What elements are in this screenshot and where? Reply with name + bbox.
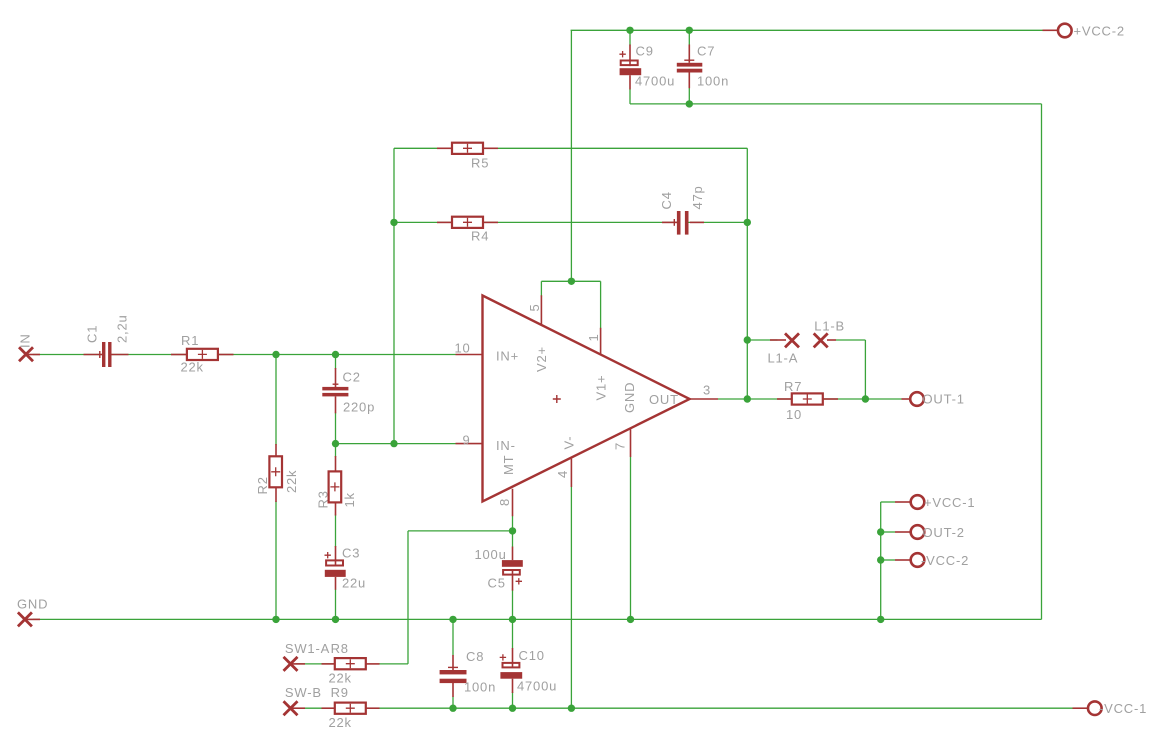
svg-text:C10: C10 bbox=[519, 648, 545, 663]
wire C9 top stub bbox=[629, 30, 631, 46]
svg-text:4700u: 4700u bbox=[635, 74, 675, 89]
junction node R2 gnd bbox=[272, 616, 279, 623]
junction node pin4 bottom bbox=[568, 705, 575, 712]
junction node C3 gnd bbox=[332, 616, 339, 623]
svg-text:L1-A: L1-A bbox=[768, 351, 799, 366]
wire right feedback riser bbox=[746, 148, 748, 399]
junction node pin7 gnd bbox=[627, 616, 634, 623]
svg-text:-VCC-2: -VCC-2 bbox=[921, 553, 969, 568]
ground port GND bbox=[18, 612, 40, 626]
svg-text:R7: R7 bbox=[784, 379, 802, 394]
op-amp center plus bbox=[553, 395, 561, 403]
svg-text:+VCC-2: +VCC-2 bbox=[1074, 24, 1125, 39]
resistor R4 bbox=[437, 217, 498, 228]
svg-text:GND: GND bbox=[622, 382, 637, 413]
svg-text:R1: R1 bbox=[181, 333, 199, 348]
port OUT-1 bbox=[902, 392, 924, 406]
resistor R9 22k bbox=[322, 703, 380, 714]
junction node C2 top bbox=[332, 351, 339, 358]
svg-text:10: 10 bbox=[786, 407, 802, 422]
svg-text:2,2u: 2,2u bbox=[115, 314, 130, 343]
wire R8 riser bbox=[407, 531, 409, 664]
capacitor C4 47p bbox=[662, 211, 704, 235]
wire GND rail bbox=[33, 618, 1042, 620]
svg-text:GND: GND bbox=[17, 597, 48, 612]
svg-text:C8: C8 bbox=[466, 649, 484, 664]
svg-text:+VCC-1: +VCC-1 bbox=[924, 495, 975, 510]
wire C10 bottom stub bbox=[512, 692, 514, 708]
wire pin8 column to C5 bbox=[512, 516, 514, 547]
svg-text:V2+: V2+ bbox=[534, 346, 549, 372]
svg-text:10: 10 bbox=[454, 341, 470, 356]
junction node IN- C2 bbox=[332, 440, 339, 447]
wire C5 to GND rail bbox=[512, 590, 514, 620]
wire OUT-2 tap stub bbox=[881, 531, 895, 533]
svg-text:IN-: IN- bbox=[496, 438, 516, 453]
svg-text:22k: 22k bbox=[181, 360, 204, 375]
svg-text:C9: C9 bbox=[636, 44, 654, 59]
op-amp pin 3 stub OUT bbox=[690, 398, 718, 400]
svg-text:OUT-2: OUT-2 bbox=[923, 525, 965, 540]
wire C8 top stub bbox=[452, 619, 454, 655]
wire C9 bottom stub bbox=[629, 89, 631, 104]
svg-text:1: 1 bbox=[586, 333, 601, 341]
wire VCC tap column bbox=[880, 502, 882, 619]
junction node VCC tap gnd bbox=[877, 616, 884, 623]
wire pin5 drop green bbox=[540, 281, 542, 296]
svg-text:100u: 100u bbox=[475, 547, 507, 562]
wire IN- row bbox=[336, 443, 456, 445]
wire bottom rail R9 row bbox=[380, 707, 1073, 709]
svg-text:8: 8 bbox=[497, 498, 512, 506]
junction node C9 top bbox=[626, 27, 633, 34]
op-amp pin 7 stub GND bbox=[630, 429, 632, 457]
wire +VCC-1 tap stub bbox=[881, 501, 895, 503]
junction node C10 bottom bbox=[509, 705, 516, 712]
junction node V+ tie bbox=[568, 278, 575, 285]
svg-text:4700u: 4700u bbox=[517, 679, 557, 694]
svg-text:C2: C2 bbox=[343, 370, 361, 385]
capacitor C3 22u polarized bbox=[325, 546, 346, 590]
wire right-side V- riser bbox=[1041, 104, 1043, 620]
op-amp triangle body bbox=[483, 296, 690, 502]
svg-text:100n: 100n bbox=[697, 74, 729, 89]
wire left feedback riser bbox=[393, 148, 395, 443]
wire pin4 column to bottom rail bbox=[570, 487, 572, 708]
wire L1-B to riser bbox=[836, 339, 865, 341]
wire pin5-pin1 tie bbox=[541, 280, 600, 282]
svg-text:7: 7 bbox=[613, 442, 628, 450]
svg-text:V1+: V1+ bbox=[594, 375, 609, 401]
svg-text:5: 5 bbox=[527, 303, 542, 311]
svg-text:4: 4 bbox=[555, 470, 570, 478]
junction node IN- feedback bbox=[390, 440, 397, 447]
svg-text:9: 9 bbox=[462, 433, 470, 448]
svg-text:C1: C1 bbox=[85, 325, 100, 343]
svg-text:MT: MT bbox=[501, 455, 516, 475]
svg-text:47p: 47p bbox=[690, 185, 705, 209]
wire R1 to op-amp IN+ bbox=[218, 354, 455, 356]
svg-text:R8: R8 bbox=[331, 641, 349, 656]
junction node C7 top bbox=[686, 27, 693, 34]
svg-text:22k: 22k bbox=[329, 715, 352, 730]
wire R8 to riser bbox=[379, 663, 408, 665]
connector IN with pin stub bbox=[19, 347, 40, 361]
wire SW-B to R9 bbox=[296, 707, 335, 709]
junction node R1/R2 bbox=[272, 351, 279, 358]
op-amp pin 5 stub bbox=[540, 295, 542, 325]
capacitor C5 100u polarized bbox=[502, 547, 523, 591]
junction node C4 right bbox=[744, 219, 751, 226]
svg-text:R2: R2 bbox=[255, 476, 270, 494]
op-amp pin 8 stub MT bbox=[512, 489, 514, 516]
svg-text:IN+: IN+ bbox=[496, 349, 519, 364]
svg-text:C7: C7 bbox=[697, 44, 715, 59]
wire L1-B riser down to output row bbox=[864, 340, 866, 399]
junction node C5/C10 gnd bbox=[509, 616, 516, 623]
capacitor C10 4700u polarized bbox=[500, 648, 523, 693]
wire C4 to riser bbox=[689, 221, 748, 223]
wire R7 to OUT-1 bbox=[823, 398, 902, 400]
wire net V- rail below C9/C7 bbox=[630, 103, 1042, 105]
junction node R4 left bbox=[390, 219, 397, 226]
wire net +VCC-2 top rail bbox=[571, 29, 1043, 31]
wire C2 to R3 bbox=[335, 413, 337, 458]
wire riser from op-amp V+ to top rail bbox=[570, 30, 572, 281]
junction node pin8/C5 bbox=[509, 527, 516, 534]
junction node C7 bottom bbox=[686, 100, 693, 107]
svg-text:SW-B: SW-B bbox=[285, 685, 322, 700]
svg-text:R3: R3 bbox=[316, 490, 331, 508]
svg-text:3: 3 bbox=[703, 383, 711, 398]
wire R5 feedback row left bbox=[394, 147, 452, 149]
capacitor C1 2,2u bbox=[84, 342, 129, 367]
wire pin1 drop green bbox=[600, 281, 602, 328]
capacitor C8 100n bbox=[440, 655, 467, 697]
svg-text:R9: R9 bbox=[331, 685, 349, 700]
wire SW1-A to R8 bbox=[296, 663, 335, 665]
resistor R2 22k bbox=[269, 444, 282, 502]
wire R2 column lower bbox=[275, 501, 277, 619]
svg-text:OUT-1: OUT-1 bbox=[923, 392, 965, 407]
svg-text:R5: R5 bbox=[471, 156, 489, 171]
svg-text:1k: 1k bbox=[342, 492, 357, 507]
svg-text:C4: C4 bbox=[659, 191, 674, 209]
junction node C8 gnd bbox=[449, 616, 456, 623]
op-amp pin 9 stub IN- bbox=[456, 443, 483, 445]
svg-text:22k: 22k bbox=[284, 470, 299, 493]
wire C10 top stub bbox=[512, 619, 514, 648]
resistor R3 1k bbox=[329, 456, 342, 516]
junction node OUT-2 tap bbox=[877, 528, 884, 535]
wire R3 to C3 bbox=[335, 515, 337, 548]
port -VCC-2 bbox=[895, 553, 924, 567]
port -VCC-1 bottom right bbox=[1073, 701, 1102, 715]
svg-text:C3: C3 bbox=[342, 546, 360, 561]
svg-text:220p: 220p bbox=[343, 400, 375, 415]
wire pin8 tie to R8 riser bbox=[408, 530, 513, 532]
wire R4 to C4 bbox=[483, 221, 677, 223]
junction node OUT feedback bbox=[744, 395, 751, 402]
wire C8 bottom stub bbox=[452, 697, 454, 709]
junction node VCC-2 tap bbox=[877, 556, 884, 563]
capacitor C2 220p bbox=[322, 368, 348, 413]
wire R5 feedback row right bbox=[483, 147, 748, 149]
svg-text:OUT: OUT bbox=[649, 392, 679, 407]
wire C3 to GND rail bbox=[335, 589, 337, 619]
capacitor C9 4700u polarized bbox=[619, 45, 641, 90]
port +VCC-1 bbox=[895, 495, 924, 509]
port OUT-2 bbox=[895, 525, 924, 539]
svg-text:R4: R4 bbox=[471, 229, 489, 244]
switch pad SW-B bbox=[284, 701, 306, 715]
capacitor C7 100n bbox=[677, 45, 703, 89]
inductor pad L1-A bbox=[770, 333, 799, 347]
wire IN port to C1 bbox=[33, 354, 102, 356]
junction node R7 right bbox=[862, 395, 869, 402]
wire R2 column upper bbox=[275, 355, 277, 446]
wire C7 bottom stub bbox=[688, 88, 690, 104]
svg-text:SW1-A: SW1-A bbox=[285, 641, 330, 656]
wire C2 top stub bbox=[335, 355, 337, 370]
svg-text:100n: 100n bbox=[464, 680, 496, 695]
wire pin7 column to GND rail bbox=[630, 457, 632, 619]
resistor R8 22k bbox=[322, 658, 380, 669]
op-amp pin 4 stub V- bbox=[570, 459, 572, 487]
wire output to R7 bbox=[718, 398, 792, 400]
svg-text:V-: V- bbox=[562, 436, 577, 450]
svg-text:-VCC-1: -VCC-1 bbox=[1099, 701, 1147, 716]
op-amp pin 10 stub IN+ bbox=[456, 354, 483, 356]
wire R4 feedback row left bbox=[394, 221, 452, 223]
inductor pad L1-B bbox=[814, 333, 836, 347]
wire C7 top stub bbox=[688, 30, 690, 46]
wire -VCC-2 tap stub bbox=[881, 559, 895, 561]
svg-text:IN: IN bbox=[18, 333, 33, 348]
resistor R7 10 bbox=[777, 393, 838, 404]
wire OUT to L1-A bbox=[747, 339, 777, 341]
op-amp pin 1 stub bbox=[600, 328, 602, 355]
svg-text:C5: C5 bbox=[488, 576, 506, 591]
resistor R1 22k bbox=[171, 349, 234, 360]
switch pad SW1-A bbox=[284, 657, 306, 671]
svg-text:22k: 22k bbox=[329, 671, 352, 686]
junction node L1 tap bbox=[744, 336, 751, 343]
port +VCC-2 top right bbox=[1043, 24, 1072, 38]
wire C1 to R1 bbox=[112, 354, 187, 356]
svg-text:L1-B: L1-B bbox=[814, 319, 845, 334]
svg-text:22u: 22u bbox=[342, 576, 366, 591]
junction node C8 bottom bbox=[449, 705, 456, 712]
resistor R5 bbox=[437, 143, 498, 154]
